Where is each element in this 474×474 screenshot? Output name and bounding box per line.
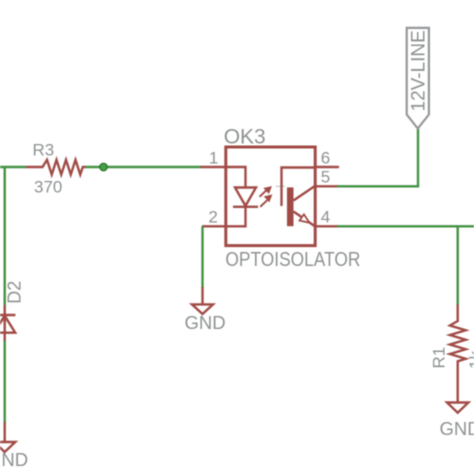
- svg-text:GND: GND: [0, 449, 28, 470]
- wire pin4 to right edge: [337, 225, 474, 227]
- svg-text:12V-LINE: 12V-LINE: [408, 30, 429, 111]
- svg-text:R1: R1: [430, 347, 449, 369]
- pin 6 stub: [315, 166, 339, 168]
- optoisolator U1 body OK3: [226, 147, 315, 246]
- svg-text:GND: GND: [184, 312, 225, 333]
- transistor emitter: [294, 212, 315, 227]
- svg-text:D2: D2: [5, 281, 25, 304]
- diode D2: [0, 305, 15, 341]
- resistor R3: [26, 160, 86, 175]
- wire left vertical net: [3, 167, 5, 305]
- ground right: [447, 403, 468, 413]
- junction dot: [100, 163, 108, 171]
- svg-text:5: 5: [321, 167, 330, 186]
- origin cross: [276, 185, 286, 187]
- transistor collector: [294, 186, 315, 200]
- svg-text:1k: 1k: [466, 351, 474, 369]
- svg-text:1: 1: [209, 149, 218, 168]
- gnd lead middle: [201, 287, 203, 304]
- transistor base bar: [287, 187, 294, 226]
- pin 5 stub: [315, 185, 339, 187]
- wire pin 2 to GND: [201, 226, 203, 288]
- svg-text:R3: R3: [33, 141, 55, 160]
- svg-text:2: 2: [208, 207, 217, 226]
- pin 2 stub: [202, 225, 226, 227]
- emitter arrowhead: [300, 214, 310, 223]
- ground left: [0, 442, 15, 452]
- wire main horizontal net left: [0, 166, 26, 168]
- diode D2 origin cross: [1, 318, 8, 325]
- pin 4 stub: [315, 225, 339, 227]
- pin 1 stub: [201, 166, 227, 168]
- light arrow upper: [260, 187, 272, 197]
- LED triangle: [235, 188, 256, 206]
- ground middle: [192, 304, 213, 314]
- light arrow lower: [260, 195, 272, 207]
- transistor base line: [282, 168, 316, 207]
- resistor R1: [450, 305, 466, 403]
- svg-text:370: 370: [34, 178, 62, 197]
- LED inner wiring: [226, 167, 246, 226]
- wire pin5 to 12V-LINE: [337, 129, 418, 187]
- gnd lead left: [3, 422, 5, 442]
- svg-text:OK3: OK3: [224, 125, 266, 148]
- wire down to R1: [457, 226, 459, 305]
- wire from R3 to pin 1: [85, 166, 201, 168]
- svg-text:GND: GND: [439, 418, 474, 439]
- wire D2 to GND: [3, 341, 5, 423]
- svg-text:4: 4: [321, 207, 330, 226]
- LED cathode bar: [233, 206, 258, 208]
- supply flag 12V-LINE: [407, 28, 429, 129]
- svg-text:OPTOISOLATOR: OPTOISOLATOR: [225, 248, 360, 271]
- svg-text:6: 6: [321, 149, 330, 168]
